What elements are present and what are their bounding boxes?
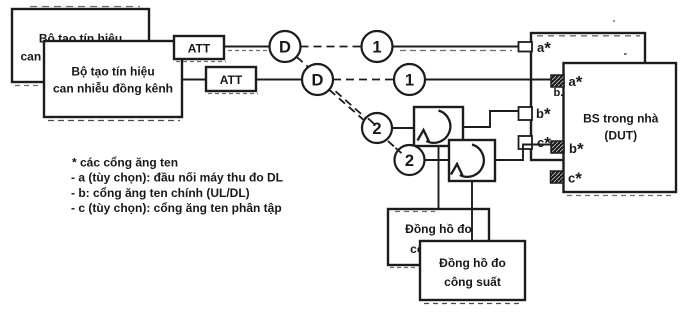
wire: circle 1 to port a* (front) xyxy=(425,79,553,81)
BS box (front): BS trong nha (DUT) xyxy=(564,63,677,192)
circle 2 (back) xyxy=(362,113,392,143)
attenuator ATT (front) xyxy=(206,67,256,91)
wire: generator to ATT (front) xyxy=(182,79,206,81)
wire: circle 2 to circulator (back) xyxy=(392,127,414,129)
svg-text:Đồng hồ đo: Đồng hồ đo xyxy=(439,256,506,270)
svg-text:- b: cổng ăng ten chính (UL/DL: - b: cổng ăng ten chính (UL/DL) xyxy=(71,186,250,200)
wire: dashed diagonal D to 2 (front copy) xyxy=(329,90,398,150)
port a* (front, hatched) xyxy=(551,75,564,87)
attenuator ATT (back, drawn over front generator box) xyxy=(174,36,224,59)
wire: dash overlapping circle 2 edge (front) xyxy=(396,148,402,153)
svg-text:c*: c* xyxy=(568,169,582,188)
svg-text:1: 1 xyxy=(405,71,414,89)
svg-text:(DUT): (DUT) xyxy=(604,129,637,143)
svg-text:D: D xyxy=(312,71,324,89)
svg-text:- c (tùy chọn): cổng ăng ten p: - c (tùy chọn): cổng ăng ten phân tập xyxy=(71,201,282,215)
svg-text:Bộ tạo tín hiệu: Bộ tạo tín hiệu xyxy=(71,64,154,78)
power meter box (back ghost) xyxy=(388,209,489,265)
port b* (front, hatched) xyxy=(551,141,564,153)
svg-text:b*: b* xyxy=(536,105,551,124)
wire: ATT to splitter D (back) xyxy=(224,46,271,48)
wire: dashed D to 1 (back) xyxy=(301,46,362,48)
svg-text:b*: b* xyxy=(569,140,584,159)
wire: circle 1 to port a* (back) xyxy=(393,46,521,48)
svg-text:công suất: công suất xyxy=(444,275,501,289)
wire: circulator to port b* (back) xyxy=(463,111,521,127)
wire: circulator down to power meter (front) xyxy=(471,181,473,241)
circulator (front) xyxy=(449,140,495,181)
wire: dashed diagonal D to 2 (back copy) xyxy=(297,57,366,118)
svg-text:can nhiễu đồng kênh: can nhiễu đồng kênh xyxy=(53,81,173,96)
svg-text:a*: a* xyxy=(569,73,583,92)
BS box (back ghost) xyxy=(531,33,645,160)
box: signal generator (back ghost) xyxy=(12,9,149,82)
circle 1 (back) xyxy=(362,31,393,62)
circulator (back) xyxy=(414,107,463,146)
wire: circle 2 to circulator (front) xyxy=(425,159,450,161)
svg-text:2: 2 xyxy=(405,152,414,170)
dash segment inside circle 2 (back) xyxy=(368,118,374,124)
svg-text:D: D xyxy=(279,38,291,56)
circle 1 (front) xyxy=(394,64,425,95)
wire: ATT to splitter D (front) xyxy=(256,79,303,81)
port b* (back, open) xyxy=(519,107,533,120)
svg-text:ATT: ATT xyxy=(188,42,211,56)
svg-text:b.: b. xyxy=(554,87,564,99)
splitter circle D (back) xyxy=(270,31,301,62)
svg-text:BS trong nhà: BS trong nhà xyxy=(583,112,659,126)
svg-text:a*: a* xyxy=(537,39,551,58)
box: signal generator (front) xyxy=(44,41,182,117)
wire: circulator to port b* (front) xyxy=(495,145,553,161)
splitter circle D (front) xyxy=(302,64,333,95)
wire: dashed D to 1 (front) xyxy=(333,79,394,81)
svg-text:c*: c* xyxy=(537,134,551,153)
wire: circulator down to power meter (back) xyxy=(438,146,440,209)
svg-text:* các cổng ăng ten: * các cổng ăng ten xyxy=(72,156,178,170)
port c* (back, open) xyxy=(519,136,533,149)
circle 2 (front) xyxy=(395,145,425,175)
note: antenna port legend xyxy=(71,156,283,216)
port a* (back, open) xyxy=(519,42,533,52)
svg-text:ATT: ATT xyxy=(220,73,243,87)
svg-text:1: 1 xyxy=(372,38,381,56)
svg-text:Đồng hồ đo: Đồng hồ đo xyxy=(405,222,472,236)
power meter box (front): Dong ho do cong suat xyxy=(420,241,525,300)
svg-text:- a (tùy chọn): đầu nối máy th: - a (tùy chọn): đầu nối máy thu đo DL xyxy=(71,171,283,185)
port c* (front, hatched) xyxy=(551,171,564,183)
